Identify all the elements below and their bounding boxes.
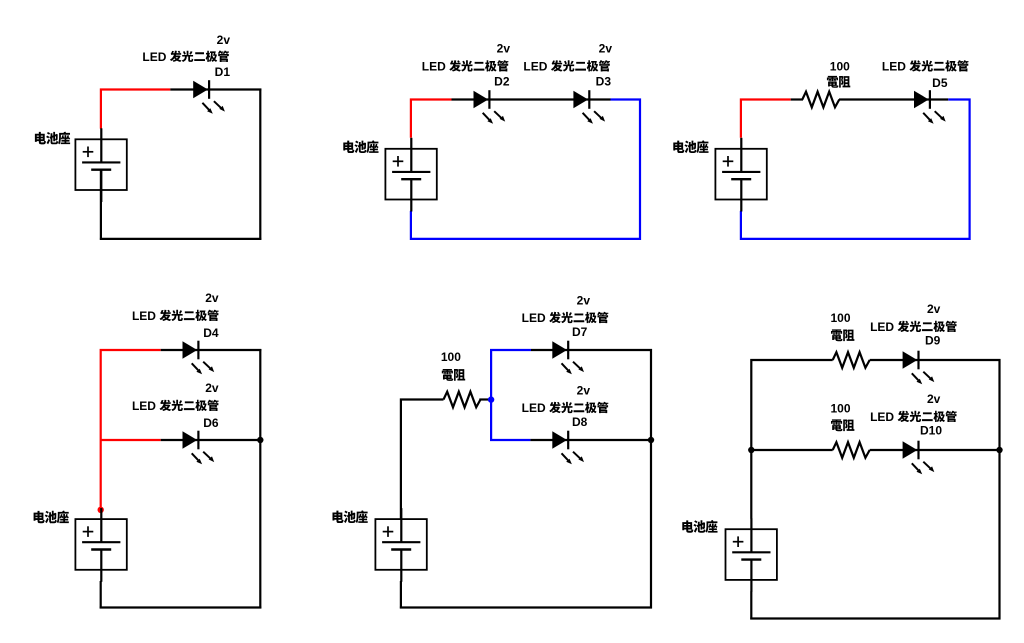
svg-text:LED: LED [882,59,906,73]
svg-text:D7: D7 [572,325,588,339]
resistor R2 100Ω [444,392,481,408]
svg-text:2v: 2v [577,294,591,308]
wire: LED D8 branch [530,439,652,441]
wire: resistor R2 right lead to junction [479,398,491,400]
wire: right side vertical (circuit 1) [259,89,261,240]
wire: bottom return (circuit 6) [750,617,1000,619]
wire: right side vertical (circuit 5) [650,349,652,609]
wire: D2 anode to D3 cathode run [452,98,611,100]
svg-text:D4: D4 [203,326,219,340]
svg-text:2v: 2v [205,381,219,395]
junction: positive rail at battery (red) [98,507,104,513]
LED D6 [183,431,215,465]
svg-text:LED: LED [870,410,894,424]
label: LED 发光二极管 (D8) [522,401,609,415]
svg-text:LED: LED [132,399,156,413]
resistor R4 100Ω [833,442,870,458]
label: 电池座 (BT4) [34,511,69,524]
wire: battery BT6 positive rail [751,360,832,519]
wire: battery BT1 negative lead [100,170,102,240]
label: LED 发光二极管 (D9) [870,320,957,334]
wire: resistor R1 to LED D5 [839,98,948,100]
label: 電阻 (R2) [442,369,465,381]
LED D4 [183,341,215,375]
wire: bottom return (circuit 1) [100,238,261,240]
wire: R4 branch lead [751,449,832,451]
wire: R4 to LED D10 [870,449,1001,451]
label: 电池座 (BT2) [343,140,378,153]
svg-text:D1: D1 [215,65,231,79]
wire: battery BT5 negative lead [400,581,402,609]
label: LED 发光二极管 (D1) [142,50,229,64]
wire: LED D7 branch [531,349,652,351]
LED D7 [552,341,584,375]
resistor R3 100Ω [833,352,870,368]
svg-text:100: 100 [830,311,850,325]
battery 电池座 BT3 [715,138,766,212]
svg-text:2v: 2v [927,392,941,406]
svg-text:100: 100 [441,350,461,364]
svg-text:LED: LED [422,59,446,73]
svg-text:D5: D5 [932,76,948,90]
wire: battery BT5 positive to resistor R2 [401,400,444,520]
svg-text:LED: LED [523,59,547,73]
wire: bottom return (circuit 4) [100,606,262,608]
label: 电池座 (BT5) [332,510,367,523]
LED D5 [914,90,946,124]
label: LED 发光二极管 (D4) [132,309,219,323]
label: LED 发光二极管 (D7) [522,311,609,325]
label: LED 发光二极管 (D2) [422,59,509,73]
wire: battery BT4 positive rail (red) [101,350,161,510]
svg-text:2v: 2v [217,33,231,47]
wire: D3 cathode return loop (blue) [411,100,640,239]
junction: positive rail to R4 branch [748,447,754,453]
svg-text:D2: D2 [494,75,510,89]
label: LED 发光二极管 (D3) [523,59,610,73]
svg-text:LED: LED [870,320,894,334]
battery 电池座 BT1 [75,128,126,202]
wire: battery BT4 negative lead [100,581,102,609]
wire: battery BT6 negative lead [750,592,752,620]
svg-text:D6: D6 [203,416,219,430]
label: 電阻 (R4) [831,419,854,431]
wire: junction to D7/D8 anodes (blue) [491,350,531,440]
label: LED 发光二极管 (D10) [870,410,957,424]
LED D10 [903,441,935,475]
wire: battery BT2 positive to LED D2 anode (red) [411,100,452,138]
wire: battery BT1 positive to LED D1 anode (red) [101,90,170,129]
wire: LED D1 top run to right corner [170,88,261,90]
LED D2 [474,90,506,124]
LED D3 [573,90,605,124]
battery 电池座 BT5 [375,508,426,582]
wire: branch to LED D6 anode (red) [101,439,161,441]
svg-text:100: 100 [830,401,850,415]
wire: LED D6 branch [161,439,262,441]
battery 电池座 BT4 [75,508,126,582]
LED D8 [552,431,584,465]
label: 电池座 (BT3) [673,140,708,153]
wire: resistor R1 left lead [791,98,803,100]
svg-text:2v: 2v [205,291,219,305]
svg-text:100: 100 [830,59,850,73]
junction: D6 cathode to right rail [257,437,263,443]
junction: resistor to LED branches (blue) [488,396,494,402]
battery 电池座 BT2 [385,138,436,212]
svg-text:D3: D3 [596,75,612,89]
wire: bottom return (circuit 5) [400,606,652,608]
label: 电池座 (BT6) [682,520,717,533]
wire: D5 cathode return loop (blue) [741,100,970,239]
svg-text:D10: D10 [920,424,942,438]
wire: right side vertical (circuit 4) [259,349,261,609]
svg-text:D8: D8 [572,415,588,429]
LED D9 [903,351,935,385]
svg-text:2v: 2v [497,42,511,56]
svg-text:LED: LED [522,311,546,325]
label: 電阻 (R3) [831,329,854,341]
junction: D8 cathode to right rail [648,437,654,443]
wire: LED D4 branch top [161,349,262,351]
label: 電阻 (R1) [827,76,850,88]
svg-text:2v: 2v [599,42,613,56]
battery 电池座 BT6 [726,518,777,592]
wire: right side vertical (circuit 6) [998,359,1000,620]
LED D1 [193,80,225,114]
svg-text:2v: 2v [927,302,941,316]
wire: battery BT3 positive to resistor R1 (red) [741,100,791,138]
label: LED 发光二极管 (D6) [132,399,219,413]
label: LED 发光二极管 (D5) [882,59,969,73]
svg-text:LED: LED [522,401,546,415]
svg-text:LED: LED [142,50,166,64]
svg-text:D9: D9 [925,334,941,348]
junction: D10 cathode to right rail [996,447,1002,453]
wire: R3 to LED D9 and right rail [870,359,1001,361]
svg-text:LED: LED [132,309,156,323]
label: 电池座 (BT1) [35,132,70,145]
svg-text:2v: 2v [577,384,591,398]
resistor R1 100Ω [802,92,839,108]
